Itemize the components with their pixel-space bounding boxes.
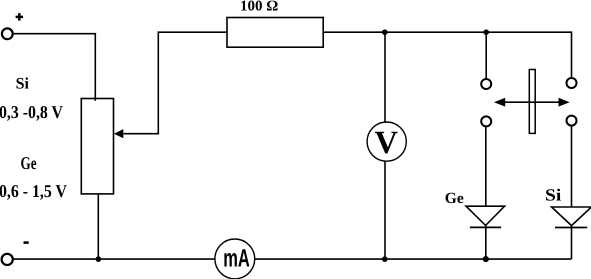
svg-text:Si: Si bbox=[545, 186, 562, 205]
svg-text:0,3 -0,8 V: 0,3 -0,8 V bbox=[0, 102, 63, 122]
svg-text:Ge: Ge bbox=[21, 153, 37, 173]
svg-text:V: V bbox=[374, 125, 398, 161]
svg-text:mA: mA bbox=[223, 245, 250, 273]
svg-text:Si: Si bbox=[16, 76, 30, 93]
svg-text:0,6 - 1,5 V: 0,6 - 1,5 V bbox=[0, 181, 67, 201]
svg-text:Ge: Ge bbox=[445, 190, 464, 207]
svg-text:100 Ω: 100 Ω bbox=[240, 0, 278, 14]
